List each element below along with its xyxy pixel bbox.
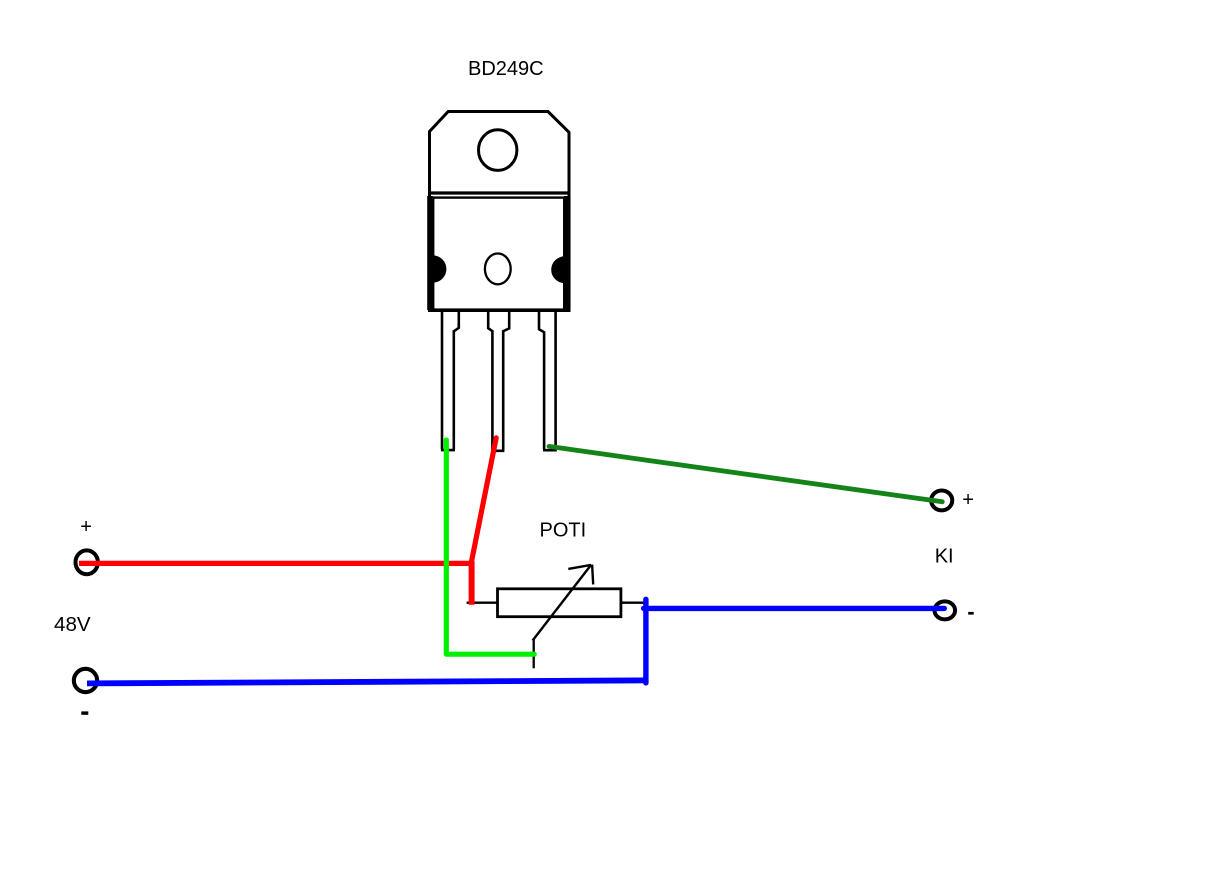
wire blue bottom 48V- run: [87, 680, 646, 683]
pin 2 (collector leg): [488, 311, 509, 451]
transistor small center hole: [485, 254, 511, 285]
wire blue to KI-: [644, 606, 945, 611]
wire green base (pin1 to poti wiper): [446, 440, 534, 654]
wire red diagonal to pin2: [471, 438, 496, 565]
transistor left side notch: [433, 255, 447, 282]
potentiometer left lead: [467, 602, 499, 604]
potentiometer arrow barb down: [592, 565, 593, 585]
transistor tab divider: [428, 191, 571, 194]
label - right: [968, 612, 974, 615]
potentiometer wiper stub: [533, 640, 535, 669]
label - left: [81, 711, 88, 714]
pin 1 (base leg): [441, 311, 459, 450]
terminal circle 48V +: [76, 550, 98, 574]
transistor right side notch: [551, 256, 564, 283]
potentiometer arrow barb left: [568, 565, 591, 569]
svg-text:BD249C: BD249C: [468, 58, 544, 80]
svg-text:+: +: [80, 516, 92, 538]
terminal circle KI +: [931, 490, 952, 510]
svg-text:48V: 48V: [54, 613, 91, 636]
potentiometer body: [498, 589, 621, 617]
potentiometer right lead: [621, 602, 647, 604]
transistor Q1 package outline: [430, 112, 570, 311]
transistor mounting hole: [479, 130, 517, 171]
transistor body thick left edge: [427, 196, 433, 310]
wire blue vertical riser: [643, 599, 648, 683]
transistor body inner rect: [433, 198, 564, 310]
pin 3 (emitter leg): [539, 311, 557, 450]
transistor body thick right edge: [564, 196, 571, 310]
terminal circle 48V -: [74, 669, 97, 692]
terminal circle KI -: [935, 601, 956, 619]
svg-text:POTI: POTI: [540, 520, 587, 542]
svg-text:+: +: [962, 489, 974, 511]
potentiometer arrow shaft: [533, 566, 591, 641]
svg-text:KI: KI: [935, 545, 954, 567]
wire red 48V+ horizontal: [79, 561, 472, 566]
wire dark green pin3 to KI+: [549, 446, 942, 501]
wire red stub down to poti left lead: [469, 561, 475, 605]
